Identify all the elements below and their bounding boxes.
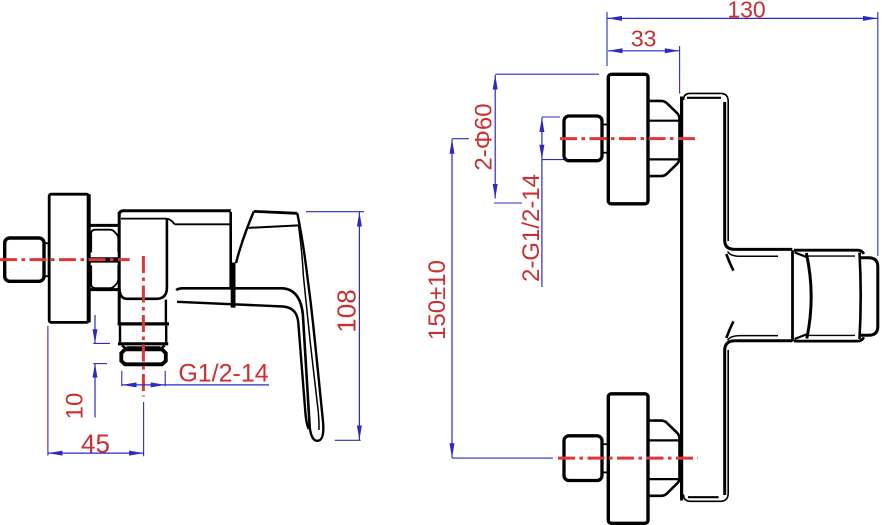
svg-text:130: 130: [727, 0, 765, 23]
dim 150+-10 ext top: [452, 138, 469, 140]
handle band line: [248, 225, 299, 228]
bottom nut face lines: [648, 440, 679, 479]
dim G1/2-14 ext left: [121, 371, 123, 387]
arm top thin inner line: [728, 252, 778, 257]
svg-text:G1/2-14: G1/2-14: [178, 360, 268, 388]
dim 130 ext right: [877, 12, 879, 256]
body bottom line 2 inner: [177, 302, 309, 429]
hex nut bottom edge: [89, 288, 119, 291]
arrowheads 10: [93, 329, 98, 343]
cap left barrel arc: [806, 253, 811, 339]
thread relief groove: [127, 346, 161, 348]
cap thin line bottom: [808, 334, 855, 336]
arrowheads 33: [608, 48, 623, 53]
fillet spur bottom: [726, 321, 733, 338]
arm bottom thin inner line: [728, 336, 778, 341]
dim 10 ext lower: [93, 363, 107, 365]
svg-text:2-G1/2-14: 2-G1/2-14: [518, 174, 545, 282]
cap chamfer wedge top: [795, 252, 808, 257]
trunk left thick edge: [680, 97, 683, 501]
svg-text:10: 10: [62, 393, 89, 420]
svg-text:2-Φ60: 2-Φ60: [471, 103, 498, 170]
hex nut lower face: [91, 265, 118, 288]
dim 2-G1/2-14 ext bottom: [542, 159, 564, 161]
cap bottom edge: [794, 337, 864, 341]
dim 108 ext top: [306, 211, 364, 213]
lever outer right edge with tip: [297, 213, 323, 441]
dim 10 lower arrow shaft: [94, 364, 96, 418]
fillet spur top: [726, 254, 733, 271]
dim G1/2-14 line: [122, 384, 269, 386]
body left edge: [118, 212, 121, 323]
dim 108 line: [358, 212, 360, 440]
handle top edge: [254, 211, 297, 213]
trunk inner top line: [687, 97, 721, 99]
centerline left view horizontal: [0, 258, 130, 261]
body saddle bottom curve: [119, 220, 167, 299]
svg-text:108: 108: [332, 289, 362, 332]
cap top edge: [794, 250, 864, 254]
body right edge: [229, 212, 232, 288]
spout collar walls: [120, 326, 166, 343]
flange right face thick edge: [87, 194, 91, 322]
dim 130 line: [608, 17, 878, 19]
bottom hex nut outline (front view): [648, 421, 680, 496]
dim 33 ext right: [679, 46, 681, 94]
dim 2-phi60 ext top: [495, 73, 599, 75]
centerline right view bottom port: [558, 457, 698, 460]
dim G1/2-14 ext right: [164, 371, 166, 387]
spout collar bottom line: [118, 342, 168, 345]
centerline right view top port: [560, 137, 698, 140]
escutcheon flange (side view): [49, 194, 88, 322]
bottom flange Phi60: [608, 394, 648, 524]
trunk inner right edge lower: [725, 341, 793, 495]
escutcheon plate outer silhouette bottom: [684, 350, 729, 501]
svg-text:150±10: 150±10: [424, 260, 451, 340]
cap right edge arc: [860, 253, 861, 340]
dim 2-G1/2-14 ext top: [542, 116, 560, 118]
dim 2-phi60 line: [494, 75, 496, 199]
top connector nipple: [602, 125, 608, 153]
cap seam line: [791, 250, 794, 341]
svg-text:45: 45: [81, 429, 110, 459]
arrowheads G1/2-14: [122, 382, 137, 387]
dim 2-G1/2-14 line with tail: [541, 118, 543, 288]
dim 108 ext bottom: [335, 439, 361, 441]
dim 2-phi60 ext bottom: [494, 202, 522, 204]
cap chamfer wedge bottom: [795, 334, 808, 339]
trunk inner right edge upper: [725, 102, 793, 249]
body cap rim line: [121, 218, 166, 220]
top nut mid bulge: [680, 122, 681, 155]
handle end knob: [861, 258, 878, 336]
arrowheads 2-phi60: [493, 75, 498, 90]
top hex nut outline (front view): [648, 101, 680, 176]
top connector cylinder: [564, 116, 602, 161]
bottom nut mid bulge: [680, 442, 681, 475]
handle left slant edge: [236, 211, 254, 263]
top flange Phi60: [608, 74, 648, 204]
dim 130 ext left: [606, 12, 608, 66]
centerline left view spout vertical: [142, 256, 145, 397]
groove side wedges: [122, 345, 165, 348]
lever inner right line: [299, 225, 320, 430]
dim 33 line: [608, 50, 679, 52]
spout step line: [118, 322, 169, 325]
dim 150+-10 ext bottom: [452, 457, 553, 459]
hex nut upper face: [91, 230, 118, 253]
dim 45 ext left: [47, 326, 49, 456]
dim 10 upper arrow shaft: [94, 315, 96, 343]
top nut face lines: [648, 121, 679, 160]
body cap top edge: [119, 211, 231, 215]
connector stub nipple: [44, 243, 49, 276]
body bottom line 1 into lever left edge: [176, 288, 310, 427]
wall connector cylinder (side view): [5, 238, 44, 281]
trunk inner bottom line: [688, 496, 719, 498]
escutcheon plate outer silhouette top: [684, 93, 729, 241]
handle edge-on thick bar: [231, 263, 236, 308]
hex nut top edge: [89, 224, 119, 227]
bottom connector nipple: [602, 444, 608, 472]
arrowheads 2-G1/2-14: [539, 118, 544, 133]
arrowheads 150+-10: [450, 139, 455, 154]
bottom connector cylinder: [564, 436, 602, 481]
hex nut waist band: [89, 257, 119, 262]
dim 45 line: [48, 452, 144, 454]
svg-text:33: 33: [631, 26, 657, 52]
cap thin line top: [808, 255, 855, 257]
dim 45 ext right spout: [143, 402, 145, 456]
spout column right wall: [165, 300, 167, 323]
cap rim hook fillet: [166, 219, 174, 225]
arrowheads 130: [608, 16, 623, 21]
dim 150+-10 line: [451, 139, 453, 458]
arrowheads 45: [48, 451, 63, 456]
body shoulder line: [175, 223, 230, 225]
outlet nozzle G1/2: [121, 349, 166, 364]
arrowheads 108: [357, 212, 362, 227]
dim 10 ext upper: [93, 342, 110, 344]
